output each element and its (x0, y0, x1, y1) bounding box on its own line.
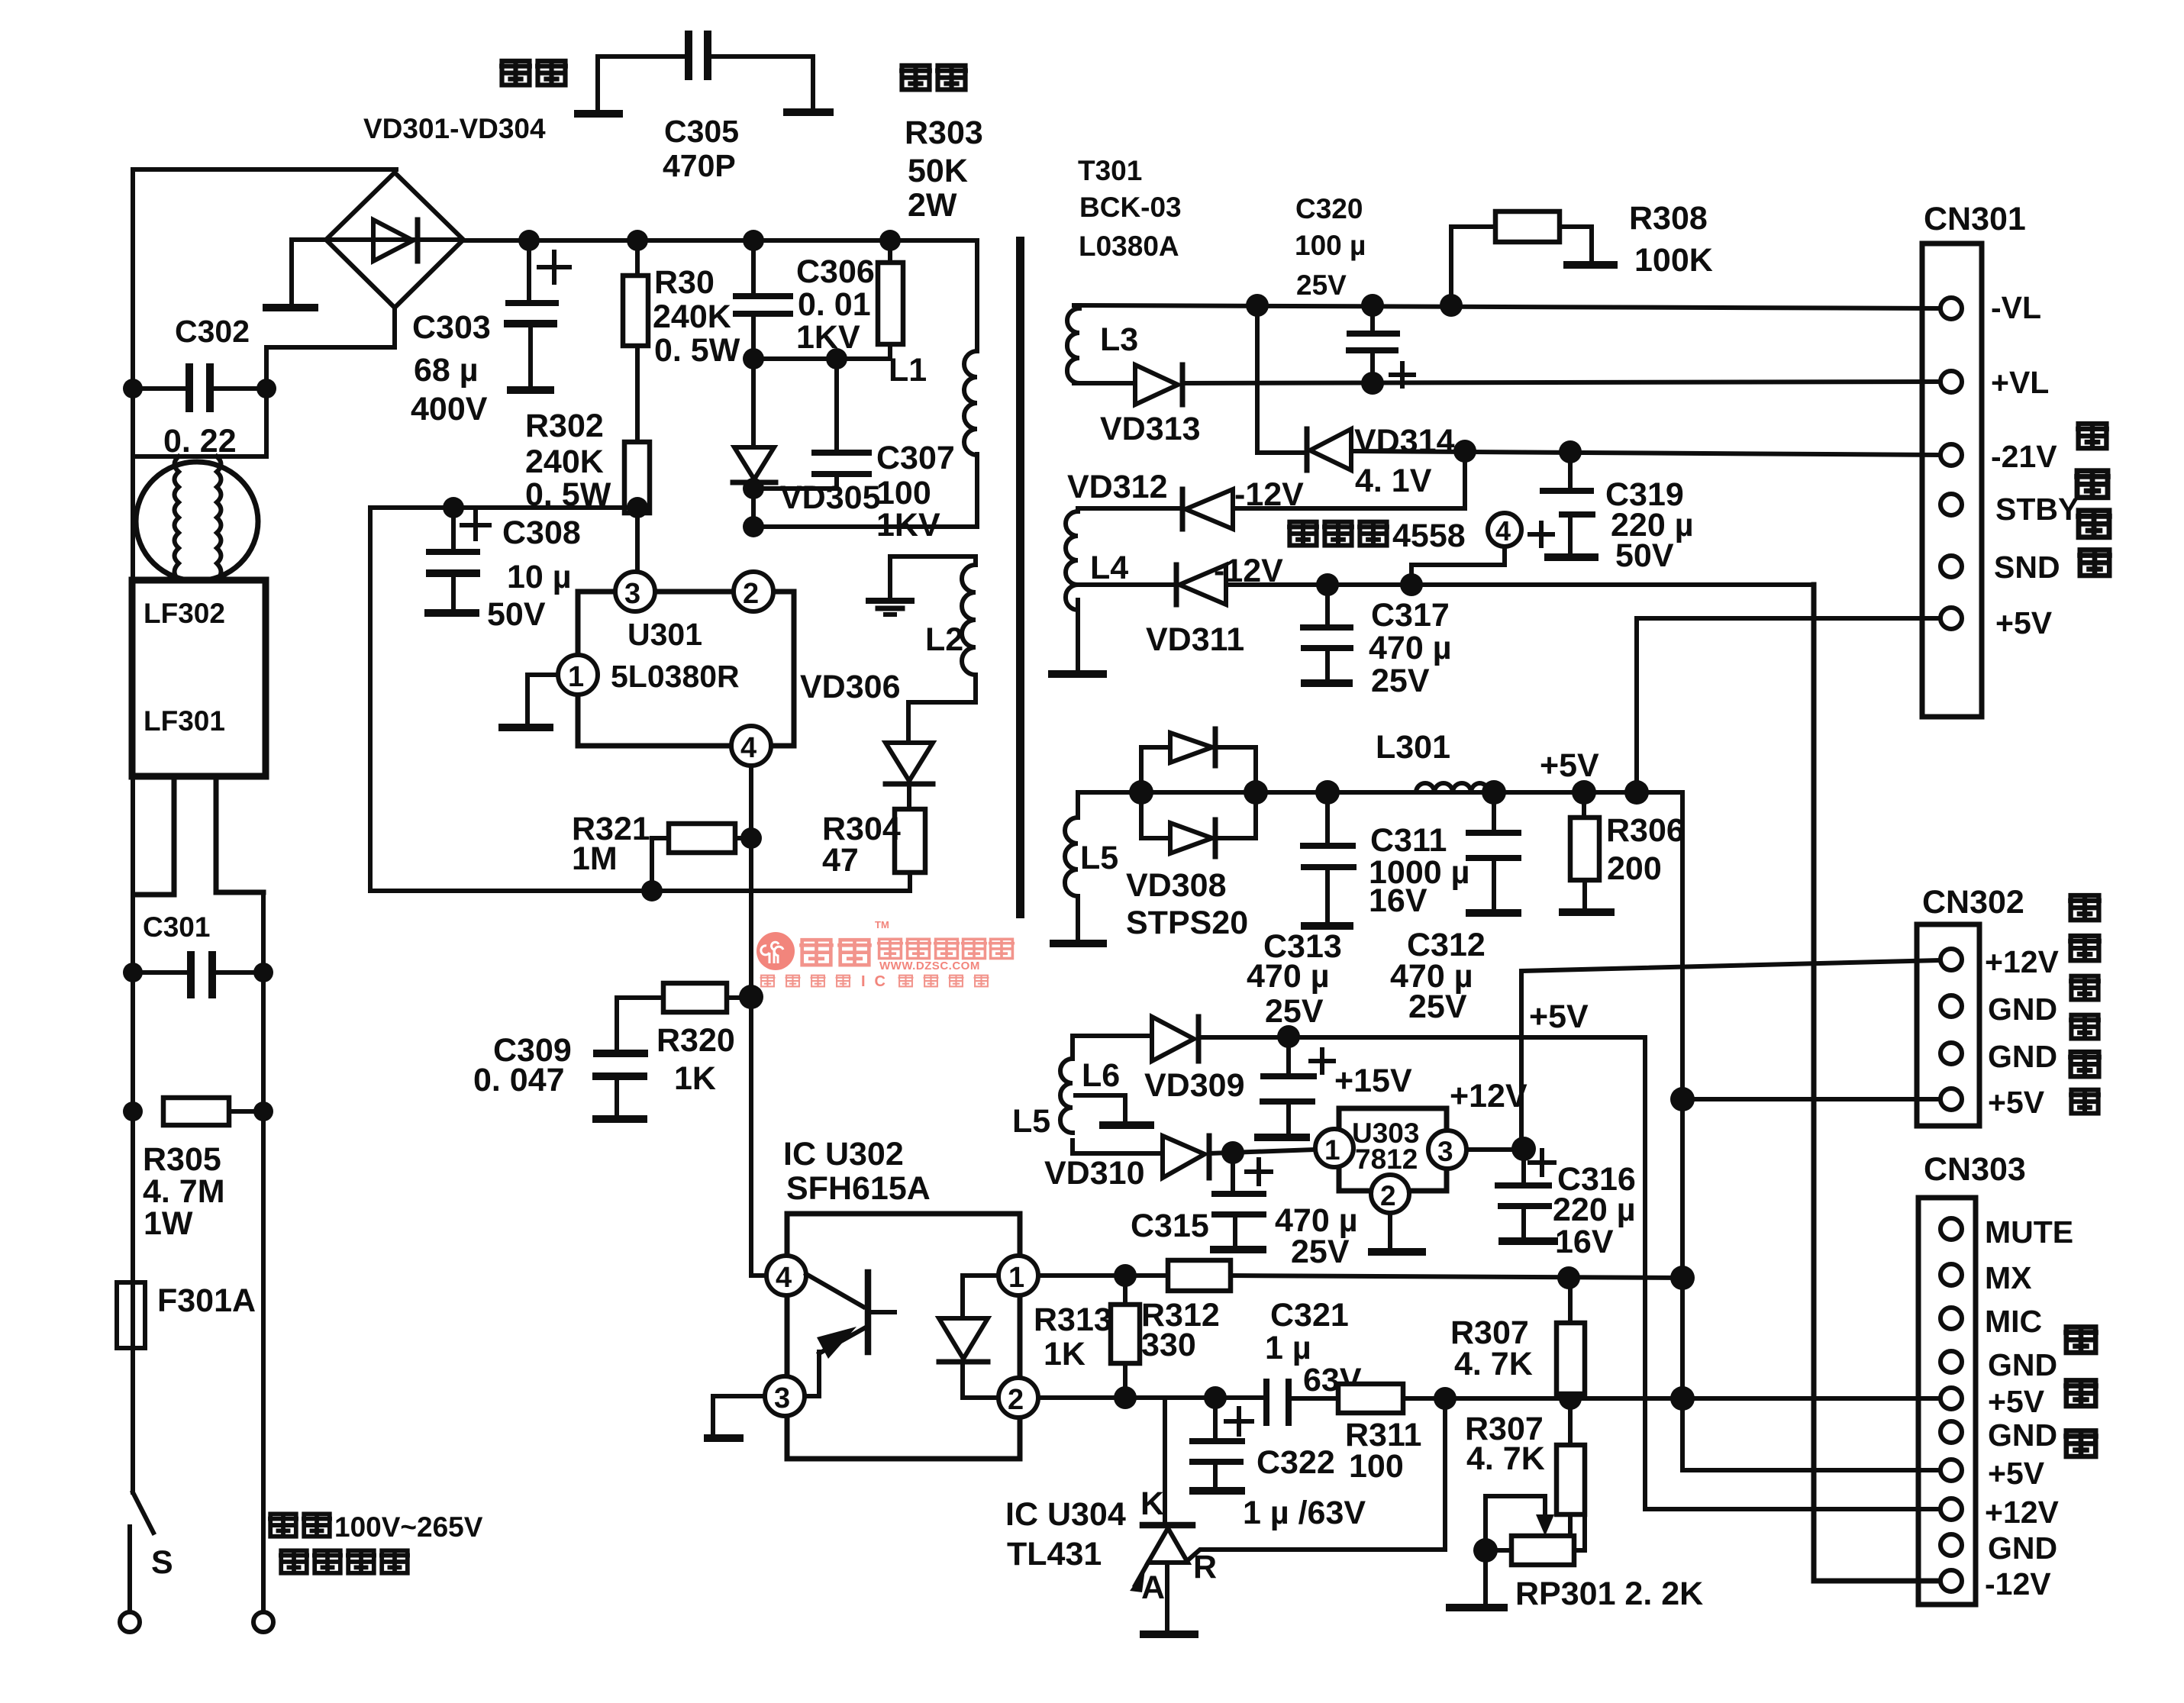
svg-text:C322: C322 (1257, 1444, 1335, 1481)
svg-text:R306: R306 (1606, 812, 1685, 849)
svg-text:R308: R308 (1629, 200, 1708, 237)
capacitor C316 (1495, 1149, 1558, 1241)
svg-text:1 µ /63V: 1 µ /63V (1243, 1495, 1366, 1531)
svg-text:1W: 1W (144, 1205, 193, 1242)
svg-text:10 µ: 10 µ (507, 559, 572, 595)
node -VL b (1361, 294, 1384, 317)
svg-text:4558: 4558 (1392, 518, 1466, 554)
svg-text:1: 1 (1008, 1262, 1024, 1294)
label to audio 4558 (1287, 522, 1319, 546)
svg-text:C320: C320 (1295, 193, 1363, 224)
node rail R302 (627, 497, 648, 518)
svg-text:R: R (1193, 1549, 1217, 1585)
pin GND cn302b (1940, 1043, 1962, 1064)
svg-text:0. 22: 0. 22 (163, 423, 237, 460)
pin +5V cn301 (1940, 608, 1962, 629)
svg-text:U301: U301 (627, 617, 702, 652)
svg-text:220 µ: 220 µ (1553, 1192, 1635, 1228)
wire right vertical mains (261, 892, 266, 1612)
svg-text:25V: 25V (1265, 993, 1324, 1030)
svg-text:4. 7M: 4. 7M (143, 1173, 225, 1210)
svg-text:L5: L5 (1080, 840, 1118, 876)
svg-text:STBY: STBY (1995, 492, 2079, 527)
svg-text:MIC: MIC (1985, 1304, 2042, 1339)
capacitor C320 (1346, 305, 1414, 386)
resistor R308 (1451, 211, 1618, 305)
resistor R304 (895, 809, 925, 891)
pin 3 U303 (1428, 1130, 1466, 1169)
svg-text:CN302: CN302 (1922, 884, 2024, 921)
node bus C306 (743, 230, 764, 251)
svg-text:3: 3 (624, 578, 640, 610)
svg-text:16V: 16V (1555, 1224, 1614, 1260)
svg-text:R313: R313 (1034, 1301, 1112, 1338)
wire +VL line (1182, 382, 1941, 383)
svg-text:R305: R305 (143, 1141, 221, 1178)
pin 1 U302 (998, 1256, 1038, 1295)
diode VD306 (886, 743, 933, 809)
svg-text:SND: SND (1994, 550, 2060, 585)
diode VD314 (1257, 429, 1351, 470)
node -21V C319 (1559, 440, 1582, 463)
node C302 right (256, 379, 276, 398)
node R305 left (123, 1101, 143, 1121)
svg-text:WWW.DZSC.COM: WWW.DZSC.COM (879, 960, 980, 972)
pin +12V cn303 (1940, 1498, 1962, 1520)
node +12V out (1511, 1137, 1536, 1161)
node row C307 (826, 348, 847, 369)
wire pin2 row (1038, 1395, 1262, 1400)
svg-text:2W: 2W (908, 187, 957, 224)
IC U301 5L0380R box (578, 592, 794, 746)
svg-text:GND: GND (1988, 992, 2057, 1027)
svg-text:-VL: -VL (1991, 290, 2041, 325)
wire U301 pin4 down (751, 766, 766, 1276)
node R305 right (253, 1101, 273, 1121)
pin GND cn303a (1940, 1351, 1962, 1372)
svg-text:7812: 7812 (1355, 1143, 1418, 1175)
label to laser head unit (2068, 895, 2102, 920)
svg-text:C306: C306 (796, 253, 875, 290)
diode VD305 (733, 359, 776, 527)
wire -12V vertical (1814, 585, 1941, 1581)
pin 3 U302 (765, 1376, 805, 1416)
connector CN301 (1922, 244, 1982, 717)
pin MX (1940, 1264, 1962, 1285)
LED U302 (939, 1276, 998, 1398)
svg-text:200: 200 (1607, 850, 1662, 887)
resistor R312 (1168, 1260, 1682, 1291)
svg-text:0. 01: 0. 01 (798, 286, 871, 323)
node pin2row b (1670, 1386, 1695, 1411)
wire +5V to CN302 (1682, 1097, 1941, 1101)
capacitor C322 (1189, 1398, 1252, 1491)
svg-text:+12V: +12V (1450, 1078, 1528, 1114)
node C315 (1221, 1141, 1244, 1164)
line filter LF302/LF301 box (132, 580, 266, 776)
svg-text:68 µ: 68 µ (414, 352, 479, 389)
capacitor C315 (1210, 1153, 1271, 1250)
wire +5V rectifier rail (1078, 790, 1682, 795)
svg-text:TL431: TL431 (1007, 1536, 1102, 1572)
node -VL a (1246, 294, 1269, 317)
pin STBY (1940, 494, 1962, 515)
resistor R321 (652, 824, 751, 891)
svg-text:1K: 1K (674, 1060, 716, 1097)
transformer LF toroid circle (136, 462, 258, 581)
svg-text:100 µ: 100 µ (1295, 230, 1366, 261)
cold ground bar C305 right (783, 108, 834, 116)
pin MIC (1940, 1308, 1962, 1329)
svg-text:R30: R30 (654, 264, 715, 301)
svg-text:IC U302: IC U302 (783, 1136, 904, 1172)
svg-text:4: 4 (1495, 515, 1511, 547)
capacitor C321 (1266, 1379, 1338, 1426)
resistor R306 (1559, 792, 1615, 912)
svg-text:1KV: 1KV (796, 319, 860, 356)
svg-text:16V: 16V (1369, 882, 1428, 919)
svg-text:2: 2 (1008, 1384, 1024, 1416)
pin 4 U302 (766, 1256, 806, 1295)
capacitor C302 (133, 363, 266, 412)
svg-text:VD314: VD314 (1354, 423, 1455, 460)
node C322 tap (1204, 1386, 1227, 1409)
node row C306 (743, 348, 764, 369)
pin 2 U301 (734, 572, 773, 611)
node C301 left (123, 963, 143, 982)
wire left mains vertical (131, 169, 135, 1492)
phototransistor U302 (805, 1272, 895, 1396)
svg-text:25V: 25V (1296, 269, 1347, 301)
diode VD312 (1078, 451, 1465, 529)
svg-text:IC: IC (861, 973, 895, 990)
ground L2 (866, 556, 915, 614)
diode VD309 (1073, 1017, 1198, 1061)
svg-text:VD312: VD312 (1067, 469, 1167, 505)
svg-text:1: 1 (1324, 1134, 1340, 1166)
svg-text:1: 1 (568, 661, 584, 693)
node C301 right (253, 963, 273, 982)
pin +5V cn303a (1940, 1388, 1962, 1409)
node +5V up tap (1624, 780, 1649, 805)
svg-text:4. 1V: 4. 1V (1355, 463, 1432, 499)
diode VD308 lower (1141, 792, 1256, 856)
svg-text:VD313: VD313 (1100, 411, 1200, 447)
svg-text:C321: C321 (1270, 1297, 1349, 1334)
potentiometer RP301 (1446, 1496, 1585, 1608)
node +5V CN302 tap (1670, 1087, 1695, 1111)
svg-text:L1: L1 (889, 352, 927, 389)
node bus R303 (879, 230, 901, 251)
svg-text:C303: C303 (412, 309, 491, 346)
svg-text:100: 100 (1349, 1448, 1404, 1485)
switch S (133, 1492, 153, 1533)
svg-text:240K: 240K (525, 443, 604, 480)
node R306 tap (1572, 780, 1596, 805)
node bus C303 (518, 230, 540, 251)
svg-text:400V: 400V (411, 391, 488, 427)
svg-text:VD309: VD309 (1144, 1067, 1244, 1104)
svg-text:4: 4 (740, 732, 756, 764)
capacitor C317 (1300, 585, 1353, 683)
node R311 right (1434, 1387, 1457, 1410)
node rail R321 (641, 880, 663, 901)
svg-text:VD306: VD306 (800, 669, 900, 705)
svg-text:TM: TM (875, 919, 889, 931)
ground U301 pin1 (498, 724, 553, 731)
svg-text:C305: C305 (664, 114, 739, 149)
svg-text:L5: L5 (1012, 1103, 1050, 1140)
pin -VL (1940, 298, 1962, 319)
pin 4 U301 (731, 726, 771, 766)
bridge rectifier VD301-VD304 (326, 173, 463, 308)
resistor R302 (624, 442, 650, 513)
svg-text:SFH615A: SFH615A (786, 1170, 931, 1207)
svg-text:470 µ: 470 µ (1247, 958, 1329, 995)
svg-text:50K: 50K (908, 153, 968, 189)
wire bridge bottom to C302 right node (266, 308, 395, 389)
svg-text:L4: L4 (1090, 550, 1128, 586)
pin +12V cn302 (1940, 949, 1962, 970)
node pin1row end (1670, 1266, 1695, 1290)
svg-text:VD301-VD304: VD301-VD304 (363, 113, 546, 144)
svg-text:3: 3 (1437, 1136, 1453, 1167)
wire +15V line (1198, 1035, 1645, 1040)
capacitor C303 (504, 240, 569, 390)
svg-text:K: K (1140, 1485, 1164, 1522)
winding L3 (1067, 305, 1079, 383)
wire main HV bus (463, 238, 977, 243)
watermark logo (756, 919, 1015, 990)
svg-text:100K: 100K (1634, 242, 1713, 279)
pin 1 U301 (558, 655, 598, 695)
diode VD313 (1074, 365, 1182, 405)
svg-text:L0380A: L0380A (1079, 231, 1179, 262)
svg-text:470P: 470P (663, 148, 736, 183)
node VD308 left (1129, 780, 1153, 805)
resistor R311 (1338, 1384, 1938, 1413)
svg-text:2: 2 (743, 578, 759, 610)
svg-text:1 µ: 1 µ (1265, 1330, 1311, 1366)
wire +12V rail to CN302 (1521, 960, 1941, 971)
label mains input (268, 1511, 483, 1573)
node -21V a (1453, 440, 1476, 463)
svg-text:VD310: VD310 (1044, 1155, 1144, 1192)
terminal left (120, 1612, 140, 1632)
shunt regulator U304 TL431 (1130, 1398, 1445, 1634)
wire -VL line (1074, 305, 1941, 308)
svg-text:C308: C308 (502, 514, 581, 551)
wire C308 rail (370, 505, 637, 510)
wire LF left pin channel (134, 776, 174, 895)
pin +5V cn302 (1940, 1089, 1962, 1110)
svg-text:50V: 50V (1615, 537, 1674, 574)
svg-text:RP301 2. 2K: RP301 2. 2K (1515, 1576, 1703, 1612)
wire U302 pin3 to ground (713, 1396, 765, 1434)
node VD311 C317 (1316, 573, 1339, 596)
wire -21V line (1351, 451, 1941, 455)
inductor L301 (1416, 783, 1489, 792)
svg-text:GND: GND (1988, 1530, 2057, 1566)
svg-text:C301: C301 (143, 911, 210, 943)
svg-text:3: 3 (774, 1382, 790, 1414)
node R313 bottom (1114, 1386, 1137, 1409)
winding L4 (1048, 511, 1107, 674)
resistor R305 (163, 1098, 263, 1125)
wire U301 pin1 to ground (527, 675, 558, 724)
ground L6 tap (1076, 1095, 1154, 1125)
svg-text:4. 7K: 4. 7K (1466, 1440, 1545, 1477)
label to main board (2063, 1327, 2099, 1353)
IC U302 SFH615A box (787, 1214, 1020, 1459)
svg-text:GND: GND (1988, 1418, 2057, 1453)
svg-text:100: 100 (876, 475, 931, 511)
hot ground bar (263, 304, 318, 311)
svg-text:L2: L2 (925, 621, 963, 658)
node R307 top (1557, 1266, 1580, 1289)
resistor R313 (1111, 1276, 1140, 1398)
pin MUTE (1940, 1218, 1962, 1240)
label hot ground (499, 61, 532, 85)
IC U303 7812 box (1339, 1108, 1447, 1191)
wire top to bridge (133, 167, 396, 172)
svg-text:A: A (1141, 1569, 1165, 1606)
svg-text:VD308: VD308 (1126, 867, 1226, 904)
node R320 right (739, 985, 763, 1009)
inductor L2 winding (890, 556, 976, 743)
node C313 (1277, 1025, 1300, 1048)
resistor R307 upper (1557, 1278, 1585, 1398)
svg-text:+5V: +5V (1988, 1085, 2045, 1120)
svg-text:MUTE: MUTE (1985, 1214, 2073, 1250)
svg-text:1M: 1M (572, 840, 618, 877)
svg-text:R302: R302 (525, 408, 604, 444)
svg-text:IC U304: IC U304 (1005, 1496, 1126, 1533)
svg-text:GND: GND (1988, 1347, 2057, 1382)
label to display panel (2076, 424, 2109, 448)
capacitor C312 (1466, 792, 1521, 913)
capacitor C308 (424, 508, 489, 613)
svg-text:CN301: CN301 (1924, 201, 2026, 237)
svg-text:LF301: LF301 (144, 705, 225, 737)
inductor L1 primary winding (753, 240, 977, 527)
node VD308 right (1244, 780, 1268, 805)
svg-text:C311: C311 (1370, 822, 1447, 859)
node RP301 left (1473, 1538, 1498, 1563)
wire -21V link vertical (1255, 305, 1260, 453)
svg-text:0. 5W: 0. 5W (654, 332, 740, 369)
diode VD311 (1078, 565, 1814, 605)
fuse F301A (117, 1282, 145, 1348)
wire +5V to CN301 (1637, 618, 1941, 792)
svg-text:100V~265V: 100V~265V (334, 1511, 483, 1543)
wire 0.22 loop box (133, 389, 266, 456)
svg-text:C315: C315 (1131, 1208, 1209, 1244)
svg-text:LF302: LF302 (144, 598, 225, 629)
node R307 mid (1559, 1387, 1582, 1410)
node R313 top (1114, 1264, 1137, 1287)
terminal right (253, 1612, 273, 1632)
svg-text:R320: R320 (656, 1022, 735, 1059)
wire LF right pin channel (216, 776, 263, 892)
svg-text:C307: C307 (876, 440, 955, 476)
wire +12V vertical (1519, 974, 1524, 1149)
node rail C308 (443, 497, 464, 518)
ground U303 pin2 (1368, 1213, 1426, 1252)
wire feedback rail left (370, 508, 910, 891)
winding right wavy (217, 456, 221, 580)
svg-text:25V: 25V (1371, 663, 1430, 699)
winding L5 (1050, 792, 1107, 943)
node +VL C320 (1361, 372, 1384, 395)
node -VL c (1440, 294, 1463, 317)
svg-text:BCK-03: BCK-03 (1079, 192, 1182, 223)
svg-text:+12V: +12V (1985, 1495, 2060, 1530)
resistor R320 (617, 983, 751, 1048)
svg-text:CN303: CN303 (1924, 1151, 2026, 1188)
resistor R303 (878, 240, 903, 359)
svg-text:VD305: VD305 (780, 479, 880, 516)
svg-text:L6: L6 (1082, 1057, 1120, 1094)
capacitor C313 (1254, 1037, 1334, 1137)
winding left wavy (175, 456, 179, 580)
svg-text:2: 2 (1380, 1180, 1396, 1211)
node VD311 tap4558 (1400, 573, 1423, 596)
wire +15V corner down to CN303 +12V (1645, 1037, 1941, 1509)
svg-text:25V: 25V (1291, 1234, 1350, 1270)
node C311 tap (1315, 780, 1340, 805)
pin 3 U301 (635, 508, 640, 572)
pin SND (1940, 556, 1962, 577)
svg-text:+5V: +5V (1529, 998, 1589, 1035)
node R321 right (740, 827, 762, 849)
svg-text:330: 330 (1141, 1327, 1196, 1363)
pin 1 U303 (1315, 1129, 1353, 1167)
pin 2 U302 (998, 1378, 1038, 1418)
svg-text:-12V: -12V (1234, 476, 1304, 513)
svg-text:S: S (151, 1544, 173, 1581)
svg-text:-21V: -21V (1991, 439, 2057, 474)
svg-text:-12V: -12V (1985, 1566, 2051, 1601)
svg-text:0. 047: 0. 047 (473, 1062, 565, 1098)
svg-text:VD311: VD311 (1146, 621, 1244, 658)
wire bridge AC left to hot-ground bar (292, 240, 326, 304)
capacitor C306 (733, 240, 793, 359)
svg-text:L3: L3 (1100, 321, 1138, 358)
diode VD310 (1073, 1136, 1315, 1178)
pin GND cn303b (1940, 1421, 1962, 1443)
svg-text:+15V: +15V (1334, 1063, 1412, 1099)
terminal circled 4 (1411, 513, 1521, 585)
svg-text:47: 47 (822, 842, 859, 879)
ground U302 pin3 (704, 1434, 744, 1442)
pin GND cn303c (1940, 1534, 1962, 1556)
svg-text:F301A: F301A (157, 1282, 256, 1319)
wire U303 pin3 to +12V node (1466, 1147, 1524, 1152)
svg-text:+VL: +VL (1991, 365, 2049, 400)
svg-text:240K: 240K (653, 298, 731, 335)
node L1 bottom (743, 516, 764, 537)
svg-text:R303: R303 (905, 115, 983, 151)
svg-text:+12V: +12V (1985, 944, 2060, 979)
node VD305/C307 (743, 478, 764, 499)
wire pin1 row (1038, 1273, 1168, 1278)
svg-text:C317: C317 (1371, 597, 1450, 634)
pin 2 U303 (1371, 1175, 1409, 1213)
svg-text:L301: L301 (1376, 729, 1450, 766)
pin +5V cn303b (1940, 1459, 1962, 1481)
svg-text:+5V: +5V (1988, 1456, 2045, 1491)
